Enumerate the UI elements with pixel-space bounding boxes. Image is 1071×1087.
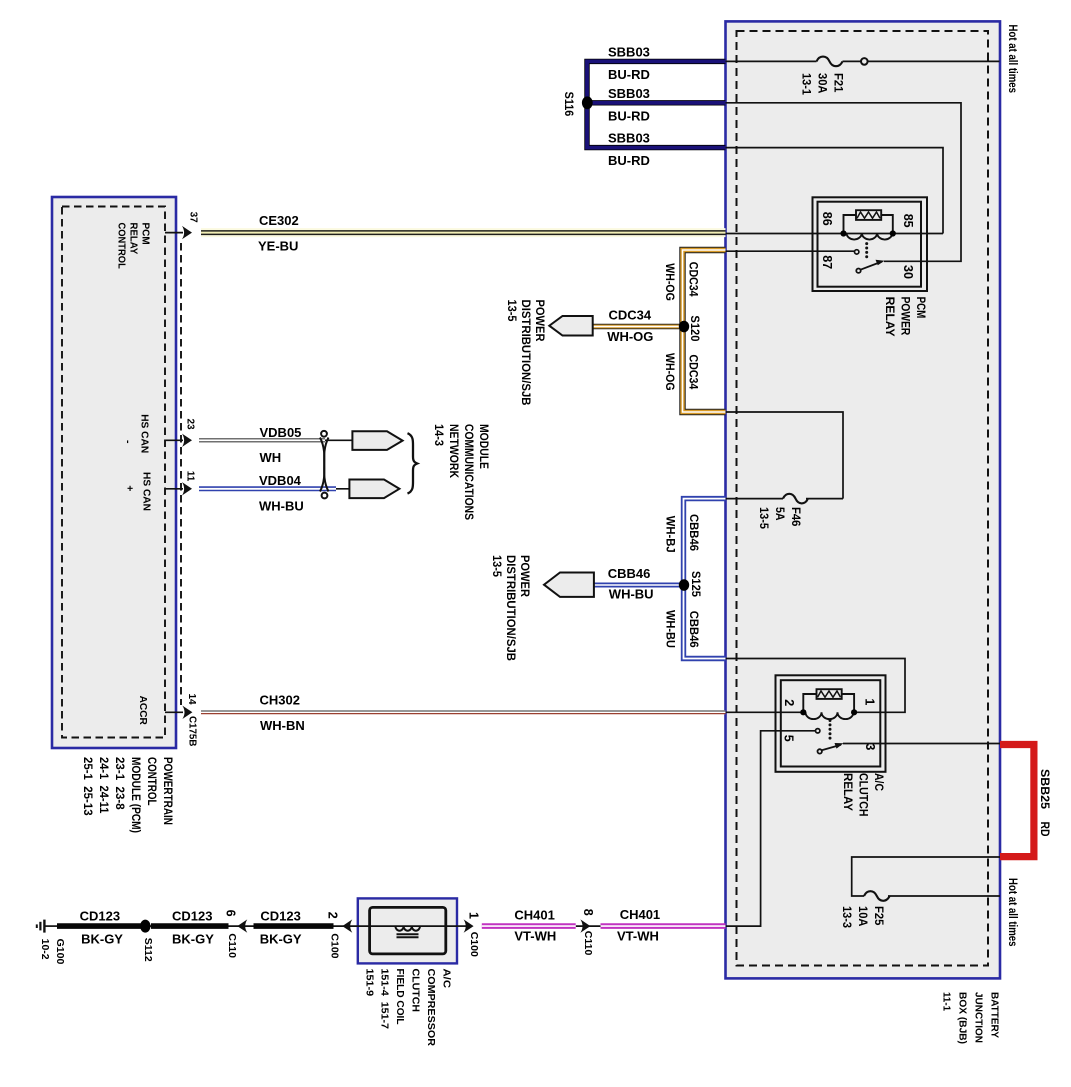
wire SBB03-2 to relay pin 30: [726, 103, 962, 261]
wire PCM pin 11 lead: [165, 488, 183, 490]
ground G100: [37, 920, 45, 933]
svg-text:Hot at all times: Hot at all times: [1006, 878, 1018, 947]
svg-text:CH302: CH302: [260, 693, 300, 708]
wire VDB05 stub to network arrow: [322, 439, 352, 441]
svg-text:WH-BU: WH-BU: [609, 587, 654, 602]
A/C compressor clutch field coil box: [358, 898, 457, 963]
relay actuator dotted link: [829, 719, 832, 740]
svg-text:WH-OG: WH-OG: [663, 263, 675, 301]
battery junction box (BJB) outline: [726, 21, 1001, 978]
wire F25 to hot feed: [888, 895, 1000, 897]
wire SBB25 return to F25: [852, 857, 1000, 896]
A/C compressor clutch field coil symbol: [395, 926, 420, 937]
svg-text:BU-RD: BU-RD: [608, 108, 650, 123]
svg-text:SBB03: SBB03: [608, 44, 650, 59]
wire PCM pin 37 lead: [165, 232, 183, 234]
svg-text:WH-BJ: WH-BJ: [663, 516, 675, 553]
svg-text:C100: C100: [329, 933, 341, 958]
wire PCM pin 23 lead: [165, 439, 183, 441]
svg-text:14: 14: [186, 694, 197, 706]
svg-text:6: 6: [224, 910, 238, 917]
svg-text:HS CAN: HS CAN: [139, 414, 151, 453]
svg-text:S116: S116: [562, 92, 574, 117]
svg-text:S120: S120: [688, 315, 700, 341]
svg-text:1: 1: [467, 912, 481, 919]
wire F46 line: [726, 498, 784, 500]
resistor element: [817, 689, 842, 699]
svg-text:+: +: [124, 485, 136, 491]
svg-text:BK-GY: BK-GY: [172, 932, 214, 947]
svg-text:BU-RD: BU-RD: [608, 153, 650, 168]
relay switch blade 30: [856, 262, 882, 273]
wire CBB46 branch to SJB: [594, 583, 684, 588]
powertrain control module (PCM) outline: [52, 197, 176, 748]
wire SBB03 S116 harness (navy): [587, 61, 726, 147]
PCM power relay internals: [844, 210, 893, 239]
svg-text:85: 85: [901, 214, 915, 228]
svg-text:HS CAN: HS CAN: [141, 472, 153, 511]
svg-text:CBB46: CBB46: [608, 566, 651, 581]
relay actuator dotted link: [865, 242, 868, 258]
connector arrow pin 37: [182, 226, 192, 239]
wire SBB03-3 to relay pin 85: [726, 148, 944, 234]
svg-text:WH-BU: WH-BU: [259, 499, 304, 514]
wire joints bottom run: [141, 925, 151, 927]
svg-text:Hot at all times: Hot at all times: [1006, 25, 1018, 94]
svg-text:11: 11: [184, 471, 195, 482]
svg-text:C110: C110: [226, 933, 238, 958]
wire CE302 YE-BU: [201, 228, 726, 237]
wire VDB04 WH-BU: [199, 486, 336, 491]
offpage arrow VDB05 network: [352, 431, 402, 450]
svg-text:2: 2: [326, 912, 340, 919]
splice S116: [582, 96, 593, 109]
wire PCM pin 14 lead: [165, 711, 183, 713]
wire CE302 to relay coil: [726, 233, 944, 235]
wire relay pin 87 to CDC34: [726, 250, 855, 252]
resistor element: [856, 210, 881, 220]
svg-text:F2510A13-3: F2510A13-3: [840, 906, 884, 928]
svg-text:86: 86: [820, 212, 834, 226]
wire ground stub: [44, 925, 58, 927]
connector arrow C110 pin 8: [580, 919, 590, 932]
connector arrow C110 pin 6: [237, 919, 247, 932]
svg-text:CDC34: CDC34: [609, 308, 652, 323]
wire VDB05 WH: [199, 438, 325, 442]
svg-text:SBB03: SBB03: [608, 131, 650, 146]
svg-text:C110: C110: [582, 931, 594, 956]
svg-text:VT-WH: VT-WH: [514, 929, 556, 944]
connector arrow pin 11: [182, 482, 192, 495]
svg-text:WH-OG: WH-OG: [607, 329, 653, 344]
svg-text:37: 37: [188, 212, 199, 224]
wire CD123 BK-GY segments: [57, 923, 334, 929]
wire CDC34 branch to SJB: [593, 324, 684, 330]
svg-text:RD: RD: [1038, 822, 1050, 837]
svg-text:VT-WH: VT-WH: [617, 929, 659, 944]
fuse F46: [783, 494, 808, 504]
coil leads: [844, 215, 857, 234]
svg-text:CDC34: CDC34: [686, 355, 698, 390]
wire CH302 to A/C relay pin 2: [726, 711, 804, 713]
svg-text:1: 1: [863, 698, 877, 705]
svg-text:5: 5: [782, 735, 796, 742]
wire CBB46 to A/C relay pin 1: [726, 659, 906, 713]
wire CDC34 WH-OG loop: [683, 250, 726, 412]
A/C clutch relay box: [776, 675, 886, 772]
wire A/C relay pin 3 to SBB25: [843, 743, 1000, 745]
splice S120: [679, 321, 689, 333]
svg-text:WH-BU: WH-BU: [663, 610, 675, 648]
wire CH401 VT-WH segments: [482, 923, 726, 929]
svg-text:8: 8: [581, 909, 595, 916]
svg-text:2: 2: [782, 699, 796, 706]
fuse F25: [864, 891, 890, 901]
svg-text:ACCR: ACCR: [137, 696, 149, 726]
svg-text:C175B: C175B: [187, 716, 198, 746]
svg-text:87: 87: [820, 255, 834, 269]
offpage arrow VDB04 network: [349, 480, 399, 499]
svg-text:WH-BN: WH-BN: [260, 718, 305, 733]
node pin 86 junction: [840, 230, 846, 236]
fuse F21: [817, 57, 868, 67]
twisted pair symbol: [320, 431, 329, 499]
PCM power relay box: [813, 197, 928, 291]
node pin 1 junction: [851, 709, 857, 715]
svg-text:CD123: CD123: [172, 909, 212, 924]
svg-text:VDB05: VDB05: [260, 425, 302, 440]
svg-text:BK-GY: BK-GY: [81, 932, 123, 947]
svg-text:S125: S125: [689, 571, 701, 598]
relay switch blade 3: [818, 745, 842, 754]
wire CDC34 to F46: [726, 412, 844, 499]
connector arrow C100 pin 1: [464, 919, 474, 932]
node pin 2 junction: [800, 709, 806, 715]
splice S112: [140, 920, 150, 933]
svg-text:23: 23: [184, 419, 195, 431]
svg-text:CH401: CH401: [620, 907, 660, 922]
svg-text:YE-BU: YE-BU: [258, 239, 298, 254]
wire CH302 WH-BN: [201, 711, 726, 714]
offpage arrow CDC34 power distribution: [549, 316, 592, 336]
svg-text:VDB04: VDB04: [259, 473, 302, 488]
svg-text:CBB46: CBB46: [687, 514, 699, 551]
relay contact 5: [816, 729, 820, 733]
svg-text:F2130A13-1: F2130A13-1: [800, 73, 844, 96]
connector arrow pin 14: [182, 706, 192, 719]
connector arrow C100 pin 2: [342, 919, 352, 932]
svg-text:CD123: CD123: [260, 909, 300, 924]
A/C clutch relay internals: [803, 689, 854, 719]
coil arcs: [806, 712, 854, 719]
connector C175B dashed line: [180, 243, 182, 705]
svg-text:30: 30: [901, 265, 915, 279]
svg-text:CDC34: CDC34: [686, 262, 698, 297]
svg-text:BU-RD: BU-RD: [608, 67, 650, 82]
wire F21 feed inside BJB: [726, 60, 817, 62]
wire SBB25 RD loop: [1000, 745, 1034, 857]
svg-text:SBB25: SBB25: [1038, 769, 1050, 810]
svg-text:WH-OG: WH-OG: [663, 353, 675, 391]
connector arrow pin 23: [182, 434, 192, 447]
svg-text:CE302: CE302: [259, 213, 299, 228]
wire VDB04 stub to network arrow: [330, 488, 349, 490]
offpage arrow CBB46 power distribution: [544, 573, 594, 597]
svg-text:CD123: CD123: [80, 909, 120, 924]
wire A/C relay pin 5 to CH401: [726, 731, 816, 926]
splice S125: [679, 579, 689, 591]
svg-text:SBB03: SBB03: [608, 86, 650, 101]
coil leads: [803, 694, 816, 712]
svg-text:BK-GY: BK-GY: [260, 932, 302, 947]
svg-text:WH: WH: [260, 450, 282, 465]
svg-text:CH401: CH401: [514, 907, 554, 922]
svg-text:C100: C100: [468, 932, 480, 957]
brace module communications network: [408, 433, 418, 493]
svg-text:S112: S112: [142, 938, 154, 962]
svg-text:3: 3: [863, 743, 877, 750]
svg-text:CBB46: CBB46: [687, 611, 699, 648]
WIRES-BLACK-THIN: [44, 61, 1000, 926]
svg-text:-: -: [122, 440, 134, 444]
wire CBB46 WH-BU loop: [684, 499, 726, 659]
coil arcs: [847, 234, 893, 240]
node pin 85 junction: [890, 230, 896, 236]
relay contact 87: [855, 250, 859, 254]
